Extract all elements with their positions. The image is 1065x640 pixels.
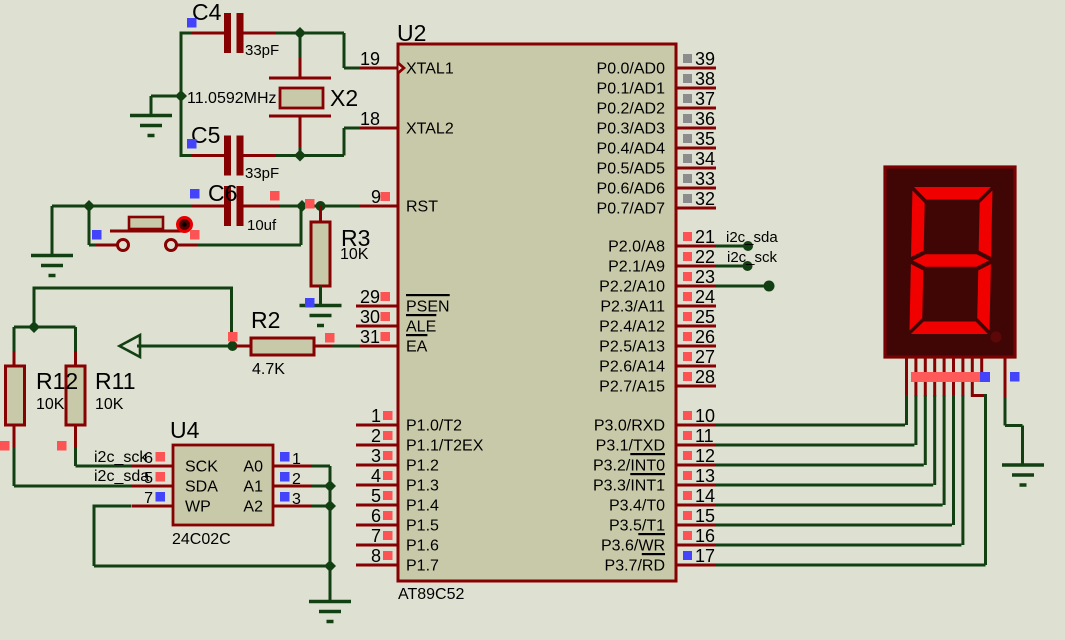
svg-text:P1.5: P1.5 [406, 518, 439, 535]
pin state square U2 pin 8 [383, 551, 393, 560]
pin state square U2 pin 35 [683, 134, 692, 143]
pin state square U2 pin 15 [683, 511, 692, 520]
svg-text:6: 6 [371, 506, 381, 526]
7seg display body [885, 167, 1015, 357]
svg-text:25: 25 [695, 307, 715, 327]
pin state square U2 pin 5 [383, 491, 393, 500]
svg-text:22: 22 [695, 247, 715, 267]
pin state square R2 left pin [228, 332, 238, 342]
capacitor C5 [181, 154, 193, 157]
svg-text:P0.1/AD1: P0.1/AD1 [597, 81, 666, 98]
U2 pin 21 P2.0/A8 [676, 245, 716, 248]
svg-text:10: 10 [695, 406, 715, 426]
wire RST to gnd [52, 205, 89, 208]
svg-text:17: 17 [695, 546, 715, 566]
U2 pin 37 P0.2/AD2 [676, 107, 716, 110]
svg-text:P2.0/A8: P2.0/A8 [608, 239, 665, 256]
crystal X2 bottom lead [269, 115, 331, 118]
wire WP loop [94, 505, 131, 508]
svg-text:P2.3/A11: P2.3/A11 [600, 299, 665, 316]
svg-text:39: 39 [695, 49, 715, 69]
pin state square R12 bottom pin [0, 441, 10, 451]
svg-text:4: 4 [371, 466, 381, 486]
svg-text:35: 35 [695, 129, 715, 149]
svg-text:38: 38 [695, 69, 715, 89]
U2 pin 2 P1.1/T2EX [356, 444, 398, 447]
svg-text:4.7K: 4.7K [252, 361, 285, 378]
pin state square U2 pin 37 [683, 94, 692, 103]
svg-text:29: 29 [360, 287, 380, 307]
pin state square U2 pin 4 [383, 471, 393, 480]
pin state square R11 bottom pin [57, 441, 67, 451]
pin state square C6 right pin [270, 191, 280, 201]
U2 pin 19 XTAL1 [356, 67, 398, 70]
U4 pin 2 A1 [273, 485, 312, 488]
wire EA row [137, 345, 236, 348]
pin state square U2 pin 33 [683, 174, 692, 183]
svg-text:P0.5/AD5: P0.5/AD5 [597, 161, 666, 178]
U2 pin 32 P0.7/AD7 [676, 207, 716, 210]
wire button left [88, 206, 91, 245]
wire i2c_sda pin21 [716, 245, 748, 248]
resistor R3 [319, 206, 322, 222]
pin state square R2 right pin [325, 333, 335, 343]
U2 pin 26 P2.5/A13 [676, 345, 716, 348]
svg-text:XTAL2: XTAL2 [406, 121, 454, 138]
svg-text:P1.6: P1.6 [406, 538, 439, 555]
svg-text:WP: WP [185, 499, 211, 516]
pin state square U2 pin 27 [683, 352, 692, 361]
ground U4 [309, 600, 351, 604]
U2 pin 7 P1.6 [356, 544, 398, 547]
svg-text:AT89C52: AT89C52 [398, 586, 465, 603]
junction WP bus [324, 560, 336, 572]
pin state square U2 pin 31 [381, 332, 391, 341]
U2 pin 25 P2.4/A12 [676, 325, 716, 328]
svg-text:33: 33 [695, 169, 715, 189]
junction C4/X2 [294, 27, 306, 39]
node R2 left [228, 341, 238, 351]
svg-text:P2.4/A12: P2.4/A12 [599, 319, 665, 336]
U2 pin 10 P3.0/RXD [676, 424, 716, 427]
pin state square U2 pin 13 [683, 471, 692, 480]
node R3 top [316, 201, 326, 211]
svg-text:ALE: ALE [406, 319, 436, 336]
U2 pin 34 P0.5/AD5 [676, 167, 716, 170]
pin state square button left pin [92, 230, 102, 240]
svg-text:U4: U4 [170, 417, 200, 443]
svg-text:13: 13 [695, 466, 715, 486]
pin state square button right pin [190, 230, 200, 240]
svg-text:P3.7/RD: P3.7/RD [605, 558, 665, 575]
junction C5/X2 [294, 150, 306, 162]
mcu U2 body [398, 44, 676, 581]
U2 pin 33 P0.6/AD6 [676, 187, 716, 190]
svg-text:P3.3/INT1: P3.3/INT1 [593, 478, 665, 495]
svg-text:P0.4/AD4: P0.4/AD4 [597, 141, 666, 158]
pin state square 7seg common pin [1010, 372, 1020, 382]
svg-text:A1: A1 [243, 479, 263, 496]
pin state square R3 top pin [305, 199, 315, 209]
7seg digit 8 segments [909, 187, 992, 334]
capacitor C4 [192, 32, 224, 35]
7seg pin state bar [911, 372, 980, 382]
7seg common pin [1004, 357, 1007, 398]
svg-text:10K: 10K [340, 246, 369, 263]
pin state square U2 pin 34 [683, 154, 692, 163]
pin state square U2 pin 16 [683, 531, 692, 540]
U2 pin 3 P1.2 [356, 464, 398, 467]
svg-text:i2c_sck: i2c_sck [94, 449, 148, 466]
svg-text:P3.1/TXD: P3.1/TXD [596, 438, 665, 455]
svg-text:P1.1/T2EX: P1.1/T2EX [406, 438, 484, 455]
junction A1 [324, 480, 336, 492]
svg-text:P0.6/AD6: P0.6/AD6 [597, 181, 666, 198]
svg-text:A2: A2 [243, 499, 263, 516]
wire RST row [89, 205, 193, 208]
svg-text:12: 12 [695, 446, 715, 466]
svg-text:SDA: SDA [185, 479, 218, 496]
pin state square U2 pin 14 [683, 491, 692, 500]
wire R11 to sck [74, 448, 77, 466]
junction pullup [28, 321, 40, 333]
U2 pin 36 P0.3/AD3 [676, 127, 716, 130]
svg-text:R2: R2 [251, 307, 280, 333]
svg-text:1: 1 [292, 451, 301, 468]
U2 pin 4 P1.3 [356, 484, 398, 487]
svg-text:32: 32 [695, 189, 715, 209]
U2 pin 1 P1.0/T2 [356, 424, 398, 427]
pin state square U2 pin 9 [381, 192, 391, 201]
wire to R11 [34, 326, 76, 329]
svg-text:P2.5/A13: P2.5/A13 [599, 339, 665, 356]
pin state square U2 pin 25 [683, 312, 692, 321]
svg-text:27: 27 [695, 347, 715, 367]
svg-text:A0: A0 [243, 459, 263, 476]
svg-text:19: 19 [360, 49, 380, 69]
svg-text:8: 8 [371, 546, 381, 566]
wire to R12 [14, 326, 34, 329]
U2 pin 17 P3.7/RD [676, 564, 716, 567]
wire R12 to sda [13, 448, 16, 486]
pin state square U2 pin 10 [683, 411, 692, 420]
svg-text:P0.3/AD3: P0.3/AD3 [597, 121, 666, 138]
wire C5 to XTAL2 [276, 154, 344, 157]
svg-text:P1.0/T2: P1.0/T2 [406, 418, 462, 435]
U2 pin 24 P2.3/A11 [676, 305, 716, 308]
U2 pin 14 P3.4/T0 [676, 504, 716, 507]
U4 pin 6 SCK [132, 465, 174, 468]
pin state square U2 pin 11 [683, 431, 692, 440]
svg-text:2: 2 [371, 426, 381, 446]
svg-text:R11: R11 [95, 368, 136, 394]
pin state square U2 pin 2 [383, 431, 393, 440]
svg-text:33pF: 33pF [245, 165, 279, 182]
svg-text:14: 14 [695, 486, 715, 506]
svg-text:11.0592MHz: 11.0592MHz [187, 90, 277, 107]
ground R3 [300, 304, 342, 308]
wire A0 bus [312, 465, 330, 468]
overline ALE [406, 314, 436, 316]
U2 pin 28 P2.7/A15 [676, 385, 716, 388]
U2 pin 35 P0.4/AD4 [676, 147, 716, 150]
wire C4 to XTAL1 [276, 32, 344, 35]
wire pullup rail [230, 288, 233, 345]
pin state square U2 pin 30 [381, 312, 391, 321]
svg-text:15: 15 [695, 506, 715, 526]
svg-text:18: 18 [360, 109, 380, 129]
resistor R11 [74, 351, 77, 366]
7seg segment pins [905, 357, 908, 397]
pin state square U2 pin 23 [683, 272, 692, 281]
junction RST button [296, 200, 308, 212]
svg-text:34: 34 [695, 149, 715, 169]
resistor R2 [236, 345, 252, 348]
wire 7seg common to gnd [1004, 398, 1007, 426]
pin state square U2 pin 6 [383, 511, 393, 520]
pin state square U2 pin 38 [683, 74, 692, 83]
U4 pin 7 WP [132, 505, 174, 508]
svg-text:P3.0/RXD: P3.0/RXD [594, 418, 665, 435]
U2 pin 11 P3.1/TXD [676, 444, 716, 447]
wire R2 to EA pin [333, 345, 361, 348]
U2 pin 39 P0.0/AD0 [676, 67, 716, 70]
U4 pin 1 A0 [273, 465, 312, 468]
U4 pin 5 SDA [132, 485, 174, 488]
svg-text:24C02C: 24C02C [172, 531, 231, 548]
wire C4 net left corner [181, 32, 193, 35]
pin state square U2 pin 21 [683, 232, 692, 241]
ground 7seg [1002, 463, 1044, 467]
pin state square U2 pin 7 [383, 531, 393, 540]
7seg decimal point [991, 332, 1002, 343]
svg-text:P3.2/INT0: P3.2/INT0 [593, 458, 665, 475]
U2 pin 16 P3.6/WR [676, 544, 716, 547]
svg-text:36: 36 [695, 109, 715, 129]
junction RST left [83, 200, 95, 212]
U2 pin 13 P3.3/INT1 [676, 484, 716, 487]
U2 pin 18 XTAL2 [356, 127, 398, 130]
U2 pin 22 P2.1/A9 [676, 265, 716, 268]
U2 pin 30 ALE [356, 325, 398, 328]
svg-text:11: 11 [695, 426, 714, 446]
junction A2 [324, 500, 336, 512]
pin state square U4 pin 1 [280, 452, 290, 462]
pin state square U2 pin 12 [683, 451, 692, 460]
terminal arrow [120, 335, 141, 357]
svg-text:3: 3 [292, 491, 301, 508]
svg-text:23: 23 [695, 267, 715, 287]
svg-text:16: 16 [695, 526, 715, 546]
U2 pin 6 P1.5 [356, 524, 398, 527]
svg-text:P1.7: P1.7 [406, 558, 439, 575]
pin state square U2 pin 32 [683, 194, 692, 203]
svg-text:2: 2 [292, 471, 301, 488]
pin state square U2 pin 22 [683, 252, 692, 261]
svg-text:10K: 10K [95, 396, 124, 413]
svg-text:P2.6/A14: P2.6/A14 [599, 359, 665, 376]
U2 pin 27 P2.6/A14 [676, 365, 716, 368]
pin state square U2 pin 39 [683, 54, 692, 63]
pin state square U2 pin 17 [683, 551, 692, 560]
svg-text:R12: R12 [36, 368, 78, 394]
wire to ground gnd1 [151, 95, 181, 98]
svg-text:28: 28 [695, 367, 715, 387]
svg-text:U2: U2 [397, 20, 426, 46]
svg-text:XTAL1: XTAL1 [406, 61, 454, 78]
svg-text:EA: EA [406, 339, 428, 356]
pin state square U4 pin 5 [156, 472, 166, 482]
svg-text:i2c_sck: i2c_sck [727, 249, 778, 266]
crystal X2 top lead [299, 33, 302, 58]
wire R3 to gnd [319, 286, 322, 305]
svg-text:10uf: 10uf [247, 217, 277, 234]
svg-text:33pF: 33pF [245, 42, 279, 59]
U2 pin 29 PSEN [356, 305, 398, 308]
svg-text:5: 5 [371, 486, 381, 506]
wires 7seg to P3.0-P3.6 [905, 395, 908, 425]
eeprom U4 body [173, 445, 273, 525]
wire button to RST [197, 244, 301, 247]
svg-text:7: 7 [144, 490, 153, 507]
svg-text:7: 7 [371, 526, 381, 546]
push button [96, 244, 117, 247]
svg-text:P1.2: P1.2 [406, 458, 439, 475]
U2 pin 12 P3.2/INT0 [676, 464, 716, 467]
U2 pin 38 P0.1/AD1 [676, 87, 716, 90]
wire A1 stub [312, 485, 330, 488]
pin state square U2 pin 28 [683, 372, 692, 381]
wire 7seg dp to pin17 [984, 394, 987, 565]
U2 pin 8 P1.7 [356, 564, 398, 567]
pin state square C6 left pin [190, 189, 200, 199]
U2 pin 23 P2.2/A10 [676, 285, 716, 288]
pin state square U4 pin 2 [280, 472, 290, 482]
pin state square U4 pin 3 [280, 492, 290, 502]
svg-text:P2.1/A9: P2.1/A9 [608, 259, 665, 276]
svg-text:P1.4: P1.4 [406, 498, 439, 515]
U2 pin 5 P1.4 [356, 504, 398, 507]
svg-text:P0.2/AD2: P0.2/AD2 [597, 101, 666, 118]
svg-text:P3.5/T1: P3.5/T1 [609, 518, 665, 535]
svg-text:C6: C6 [208, 180, 237, 206]
svg-text:PSEN: PSEN [406, 299, 450, 316]
pin state square U4 pin 6 [156, 452, 166, 462]
crystal X2 body [280, 88, 323, 108]
capacitor C6 [192, 205, 224, 208]
junction crystal mid [175, 90, 187, 102]
U4 pin 3 A2 [273, 505, 312, 508]
ground reset [31, 254, 73, 258]
overline PSEN [406, 294, 450, 296]
svg-text:30: 30 [360, 307, 380, 327]
pin state square U4 pin 7 [156, 492, 166, 502]
svg-text:P0.0/AD0: P0.0/AD0 [597, 61, 666, 78]
resistor R12 [13, 351, 16, 366]
svg-text:P2.2/A10: P2.2/A10 [599, 279, 665, 296]
svg-text:9: 9 [371, 187, 381, 207]
pin state square U2 pin 24 [683, 292, 692, 301]
pin state square C5 left pin [187, 139, 197, 149]
svg-text:P3.6/WR: P3.6/WR [601, 538, 665, 555]
pin state square C4 left pin [187, 18, 197, 28]
pin state square U2 pin 3 [383, 451, 393, 460]
svg-text:1: 1 [371, 406, 381, 426]
svg-text:X2: X2 [330, 85, 358, 111]
svg-text:i2c_sda: i2c_sda [94, 468, 149, 485]
ground crystal [130, 114, 172, 118]
svg-text:26: 26 [695, 327, 715, 347]
svg-text:P3.4/T0: P3.4/T0 [609, 498, 665, 515]
pin state square U2 pin 26 [683, 332, 692, 341]
wire A2 stub [312, 505, 330, 508]
U2 pin 9 RST [356, 205, 398, 208]
wire pin23 stub [716, 285, 769, 288]
svg-text:10K: 10K [36, 396, 65, 413]
svg-text:P1.3: P1.3 [406, 478, 439, 495]
svg-text:24: 24 [695, 287, 715, 307]
pin state square U2 pin 1 [383, 411, 393, 420]
svg-text:RST: RST [406, 199, 438, 216]
svg-text:31: 31 [360, 327, 380, 347]
U2 pin 15 P3.5/T1 [676, 524, 716, 527]
wire i2c_sck pin22 [716, 265, 748, 268]
svg-text:i2c_sda: i2c_sda [726, 229, 778, 246]
svg-text:P0.7/AD7: P0.7/AD7 [597, 201, 666, 218]
svg-text:SCK: SCK [185, 459, 218, 476]
svg-text:37: 37 [695, 89, 715, 109]
pin state square U2 pin 29 [381, 292, 391, 301]
U2 pin 31 EA [356, 345, 398, 348]
svg-text:21: 21 [695, 227, 715, 247]
button actuator indicator [178, 218, 192, 232]
svg-text:3: 3 [371, 446, 381, 466]
svg-text:P2.7/A15: P2.7/A15 [599, 379, 665, 396]
overline EA [406, 334, 427, 336]
pin state square R3 bottom pin [305, 298, 315, 308]
pin state square U2 pin 36 [683, 114, 692, 123]
